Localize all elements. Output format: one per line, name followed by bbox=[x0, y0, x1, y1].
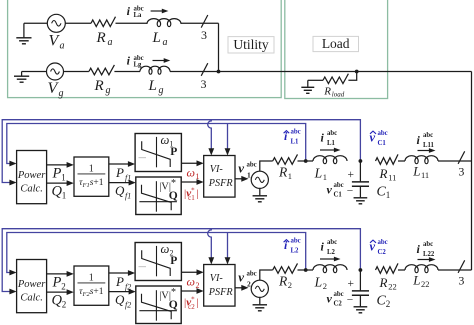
svg-text:abc: abc bbox=[327, 130, 337, 137]
block Power Calc. (converter 2) bbox=[17, 260, 47, 313]
svg-text:abc: abc bbox=[334, 182, 344, 189]
svg-text:Load: Load bbox=[322, 36, 350, 51]
svg-text:C2: C2 bbox=[334, 301, 343, 308]
ground (C2) bbox=[354, 307, 368, 313]
svg-text:R: R bbox=[94, 78, 104, 94]
label omega2 (red) bbox=[187, 275, 200, 291]
svg-text:ω: ω bbox=[187, 275, 195, 289]
wire VI-PSFR to source v1 bbox=[235, 176, 249, 182]
svg-text:L: L bbox=[314, 275, 323, 290]
svg-text:abc: abc bbox=[334, 291, 344, 298]
svg-text:11: 11 bbox=[388, 173, 396, 183]
resistor Rload bbox=[323, 74, 348, 84]
svg-text:R: R bbox=[278, 165, 288, 180]
label Q_f2 bbox=[115, 292, 131, 310]
current label i_Lg^abc bbox=[127, 54, 144, 69]
label Q1 bbox=[52, 184, 67, 201]
Utility label box bbox=[228, 37, 274, 53]
wire source to R2 bbox=[260, 270, 273, 280]
block Power Calc. (converter 1) bbox=[17, 151, 47, 204]
wire P_f2 to droop bbox=[109, 270, 135, 276]
block V-Q droop characteristic (converter 1) bbox=[136, 177, 181, 215]
ground (source v2) bbox=[253, 297, 267, 310]
AC source Vg bbox=[47, 63, 64, 80]
svg-text:P: P bbox=[115, 274, 124, 289]
label + (v_C2) bbox=[347, 278, 354, 290]
main bus wire bbox=[170, 71, 472, 73]
svg-text:abc: abc bbox=[247, 162, 257, 169]
wire ground to Vg bbox=[22, 71, 47, 73]
label L22 bbox=[412, 273, 429, 290]
block low-pass filter 1/(tau_F2s+1) bbox=[74, 266, 109, 305]
AC source v1 (converter output) bbox=[251, 171, 268, 188]
label Rg bbox=[94, 78, 111, 96]
svg-text:3: 3 bbox=[458, 165, 464, 179]
svg-text:Q: Q bbox=[169, 190, 178, 202]
label 3 (converter 2) bbox=[458, 274, 464, 288]
label î_L1 (blue) bbox=[284, 129, 301, 146]
wire Q_f1 to droop bbox=[109, 180, 136, 186]
feedback wire v̂_C1 (capacitor voltage sense) bbox=[2, 120, 360, 186]
label + (v_C1) bbox=[347, 169, 354, 181]
svg-text:1: 1 bbox=[386, 190, 391, 200]
label omega1 (red) bbox=[187, 166, 200, 182]
wire Q2 to filter bbox=[47, 289, 74, 295]
label v_C2^abc bbox=[327, 291, 344, 308]
label P_f2 bbox=[115, 274, 131, 292]
svg-text:PSFR: PSFR bbox=[208, 178, 234, 189]
svg-text:f2: f2 bbox=[125, 301, 131, 310]
current label i_La^abc bbox=[127, 4, 144, 19]
ground (C1) bbox=[354, 198, 368, 204]
Load label box bbox=[313, 36, 359, 52]
svg-text:ω: ω bbox=[187, 166, 195, 180]
label v2*abc bbox=[238, 270, 257, 289]
svg-text:v: v bbox=[327, 183, 333, 197]
svg-text:Lg: Lg bbox=[134, 61, 143, 68]
AC source Va bbox=[47, 14, 65, 32]
svg-text:L: L bbox=[152, 30, 161, 46]
inductor Lg bbox=[140, 66, 170, 74]
svg-text:v: v bbox=[238, 161, 244, 176]
ground (Rload) bbox=[301, 80, 314, 93]
svg-text:2: 2 bbox=[386, 299, 391, 309]
svg-text:load: load bbox=[332, 91, 345, 99]
svg-text:g: g bbox=[106, 85, 111, 96]
block omega1-P droop characteristic bbox=[135, 133, 181, 172]
label v*_c2 (red) bbox=[184, 296, 198, 312]
ground (source v1) bbox=[253, 188, 267, 201]
wire Rg to Lg bbox=[114, 71, 140, 73]
svg-text:3: 3 bbox=[201, 77, 207, 91]
label L1 bbox=[314, 166, 327, 183]
label Lg bbox=[148, 78, 164, 96]
svg-text:abc: abc bbox=[291, 129, 301, 136]
inductor L2 bbox=[313, 265, 347, 273]
svg-text:P: P bbox=[170, 255, 177, 267]
svg-text:R: R bbox=[379, 275, 388, 290]
label R22 bbox=[379, 275, 397, 292]
block V-Q droop characteristic (converter 2) bbox=[136, 286, 181, 324]
svg-text:Q: Q bbox=[115, 183, 125, 198]
label Ra bbox=[96, 30, 113, 48]
svg-text:v: v bbox=[327, 292, 333, 306]
junction node v_C2 bbox=[359, 268, 363, 272]
current arrow i_L1 bbox=[320, 148, 341, 153]
svg-text:L11: L11 bbox=[423, 142, 435, 149]
resistor R1 bbox=[273, 154, 298, 164]
svg-text:abc: abc bbox=[423, 241, 433, 248]
junction current sense i_L1 bbox=[304, 159, 308, 163]
svg-text:C1: C1 bbox=[334, 192, 343, 199]
svg-text:L: L bbox=[412, 164, 420, 179]
svg-text:L1: L1 bbox=[327, 140, 336, 147]
label R2 bbox=[278, 274, 292, 291]
wire Ra to La bbox=[116, 22, 148, 24]
wire v*_c2 to VI-PSFR bbox=[181, 288, 204, 294]
svg-text:R: R bbox=[96, 30, 106, 46]
junction bus-load bbox=[355, 70, 359, 74]
svg-text:3: 3 bbox=[458, 274, 464, 288]
label v̂_C1 (blue) bbox=[370, 130, 388, 147]
label Vg bbox=[48, 80, 64, 99]
label C1 bbox=[377, 185, 391, 201]
junction node v_C1 bbox=[359, 159, 363, 163]
resistor Ra bbox=[91, 17, 116, 27]
svg-text:abc: abc bbox=[423, 132, 433, 139]
svg-text:1: 1 bbox=[323, 172, 327, 182]
label C2 bbox=[377, 294, 391, 310]
wire Q1 to filter bbox=[47, 180, 74, 186]
wire Q_f2 to droop bbox=[109, 289, 136, 295]
wire R1 to node bbox=[298, 160, 314, 162]
wire La to corner bbox=[181, 22, 219, 24]
wire load tap bbox=[308, 72, 357, 81]
wire R22 junction bbox=[398, 269, 405, 271]
svg-text:PSFR: PSFR bbox=[208, 287, 234, 298]
current arrow i_L11 bbox=[418, 148, 436, 153]
label P2 bbox=[52, 275, 66, 292]
svg-text:Utility: Utility bbox=[233, 37, 269, 52]
current label i_L22 bbox=[417, 241, 435, 258]
wire VI-PSFR to source v2 bbox=[235, 285, 249, 291]
block low-pass filter 1/(tau_F1s+1) bbox=[74, 157, 109, 196]
svg-text:P: P bbox=[170, 146, 177, 158]
svg-text:1: 1 bbox=[61, 173, 65, 183]
svg-text:VI-: VI- bbox=[210, 273, 224, 284]
ground (Va source) bbox=[16, 23, 31, 44]
label v̂_C2 (blue) bbox=[370, 239, 388, 256]
load area green box bbox=[285, 0, 388, 99]
svg-text:1: 1 bbox=[89, 272, 94, 283]
svg-text:R: R bbox=[278, 274, 288, 289]
wire L11 to bus bbox=[438, 160, 472, 162]
label v_C1^abc bbox=[327, 182, 344, 199]
current arrow i_Lg bbox=[153, 58, 171, 63]
wire P2 to filter bbox=[47, 271, 74, 277]
label 3 (Vg branch) bbox=[201, 77, 207, 91]
wire v*_c1 to VI-PSFR bbox=[181, 179, 204, 185]
wire Va branch down to bus bbox=[218, 23, 220, 71]
svg-text:R: R bbox=[323, 86, 331, 98]
svg-text:R: R bbox=[379, 166, 388, 181]
label P1 bbox=[52, 166, 66, 183]
svg-text:2: 2 bbox=[247, 280, 251, 289]
current arrow i_L22 bbox=[418, 257, 436, 262]
current label i_L2 bbox=[321, 239, 338, 256]
svg-text:+: + bbox=[347, 278, 354, 290]
inductor La bbox=[147, 19, 181, 27]
current label i_L1 bbox=[321, 130, 338, 147]
svg-text:P: P bbox=[52, 275, 62, 291]
svg-text:L1: L1 bbox=[291, 139, 300, 146]
svg-text:2: 2 bbox=[61, 282, 65, 292]
wire omega2 to VI-PSFR bbox=[181, 269, 203, 275]
wire Va to Ra bbox=[65, 22, 91, 24]
label 3 (converter 1) bbox=[458, 165, 464, 179]
junction current sense i_L2 bbox=[304, 268, 308, 272]
svg-text:f1: f1 bbox=[125, 192, 131, 201]
wire omega1 to VI-PSFR bbox=[181, 160, 203, 166]
wire Vg to Rg bbox=[64, 71, 89, 73]
svg-text:a: a bbox=[108, 37, 113, 48]
svg-text:Q: Q bbox=[169, 299, 178, 311]
svg-text:L22: L22 bbox=[423, 251, 435, 258]
svg-text:1: 1 bbox=[62, 191, 67, 201]
svg-text:v: v bbox=[238, 270, 244, 285]
label Va bbox=[49, 33, 65, 52]
wire R11 junction bbox=[398, 160, 405, 162]
wire L22 to bus bbox=[438, 269, 472, 271]
svg-text:VI-: VI- bbox=[210, 164, 224, 175]
3-phase slash (Vg branch) bbox=[201, 63, 208, 76]
svg-text:abc: abc bbox=[327, 239, 337, 246]
svg-text:L2: L2 bbox=[327, 249, 336, 256]
label R11 bbox=[379, 166, 397, 183]
3-phase slash (converter 2) bbox=[458, 260, 465, 273]
svg-text:g: g bbox=[159, 85, 164, 96]
label La bbox=[152, 30, 168, 48]
resistor Rg bbox=[89, 65, 115, 75]
svg-text:La: La bbox=[134, 12, 143, 19]
block VI-PSFR (converter 1) bbox=[204, 156, 235, 198]
svg-text:Power: Power bbox=[17, 170, 46, 181]
inductor L11 bbox=[405, 156, 438, 164]
wire source to R1 bbox=[260, 161, 273, 171]
current label i_L11 bbox=[417, 132, 435, 149]
feedback wire î_L2 (inductor current sense) bbox=[7, 233, 306, 276]
capacitor C2 bbox=[352, 270, 369, 306]
feedback wire v̂_C2 (capacitor voltage sense) bbox=[2, 229, 360, 295]
svg-text:g: g bbox=[59, 88, 64, 99]
feedback wire î_L1 (inductor current sense) bbox=[7, 124, 306, 167]
svg-text:2: 2 bbox=[62, 300, 67, 310]
svg-text:−: − bbox=[347, 186, 354, 198]
svg-text:a: a bbox=[60, 41, 65, 52]
label 3 (Va branch) bbox=[201, 28, 207, 42]
svg-text:P: P bbox=[115, 165, 124, 180]
svg-text:abc: abc bbox=[247, 271, 257, 278]
resistor R11 bbox=[376, 154, 399, 164]
label v*_c1 (red) bbox=[184, 187, 198, 203]
resistor R2 bbox=[273, 263, 298, 273]
svg-text:−: − bbox=[347, 295, 354, 307]
svg-text:Calc.: Calc. bbox=[20, 293, 42, 304]
svg-text:+: + bbox=[347, 169, 354, 181]
svg-text:abc: abc bbox=[291, 238, 301, 245]
label L2 bbox=[314, 275, 327, 292]
label Q2 bbox=[52, 293, 67, 310]
wire P1 to filter bbox=[47, 162, 74, 168]
ground (Vg source) bbox=[14, 72, 29, 83]
3-phase slash (Va branch) bbox=[201, 15, 208, 28]
svg-text:L: L bbox=[314, 166, 323, 181]
svg-text:1: 1 bbox=[247, 171, 251, 180]
label - (v_C2) bbox=[347, 295, 354, 307]
svg-text:2: 2 bbox=[323, 281, 327, 291]
wire R2 to node bbox=[298, 269, 314, 271]
wire P_f1 to droop bbox=[109, 161, 135, 167]
label R1 bbox=[278, 165, 292, 182]
svg-text:a: a bbox=[163, 37, 168, 48]
svg-text:11: 11 bbox=[421, 170, 429, 180]
utility area green box bbox=[8, 0, 282, 98]
label Q_f1 bbox=[115, 183, 131, 201]
svg-text:C2: C2 bbox=[378, 249, 387, 256]
label Rload bbox=[323, 86, 344, 99]
AC source v2 (converter output) bbox=[251, 280, 268, 297]
svg-text:Power: Power bbox=[17, 279, 46, 290]
inductor L1 bbox=[313, 156, 347, 164]
label î_L2 (blue) bbox=[284, 238, 301, 255]
current arrow i_La bbox=[151, 9, 169, 14]
label - (v_C1) bbox=[347, 186, 354, 198]
3-phase slash (converter 1) bbox=[458, 151, 465, 164]
block omega2-P droop characteristic bbox=[135, 242, 181, 281]
svg-text:1: 1 bbox=[89, 163, 94, 174]
block VI-PSFR (converter 2) bbox=[204, 265, 235, 307]
svg-text:C1: C1 bbox=[378, 140, 387, 147]
label P_f1 bbox=[115, 165, 131, 183]
current arrow i_L2 bbox=[320, 257, 341, 262]
svg-text:L: L bbox=[148, 78, 157, 94]
label L11 bbox=[412, 164, 429, 181]
label v1*abc bbox=[238, 161, 257, 180]
svg-text:abc: abc bbox=[378, 239, 388, 246]
svg-text:ω: ω bbox=[161, 133, 170, 147]
svg-text:P: P bbox=[52, 166, 62, 182]
svg-text:Calc.: Calc. bbox=[20, 184, 42, 195]
inductor L22 bbox=[405, 265, 438, 273]
svg-text:ω: ω bbox=[161, 242, 170, 256]
svg-text:L2: L2 bbox=[291, 248, 300, 255]
svg-text:22: 22 bbox=[421, 279, 430, 289]
svg-text:abc: abc bbox=[378, 130, 388, 137]
svg-text:22: 22 bbox=[388, 282, 397, 292]
svg-text:2: 2 bbox=[288, 280, 292, 290]
svg-text:3: 3 bbox=[201, 28, 207, 42]
svg-text:1: 1 bbox=[288, 171, 292, 181]
svg-text:Q: Q bbox=[115, 292, 125, 307]
resistor R22 bbox=[376, 263, 399, 273]
wire ground to Va bbox=[24, 22, 47, 24]
capacitor C1 bbox=[352, 161, 369, 197]
junction Va-bus bbox=[217, 70, 221, 74]
bus vertical to converters bbox=[471, 72, 473, 271]
svg-text:L: L bbox=[412, 273, 420, 288]
